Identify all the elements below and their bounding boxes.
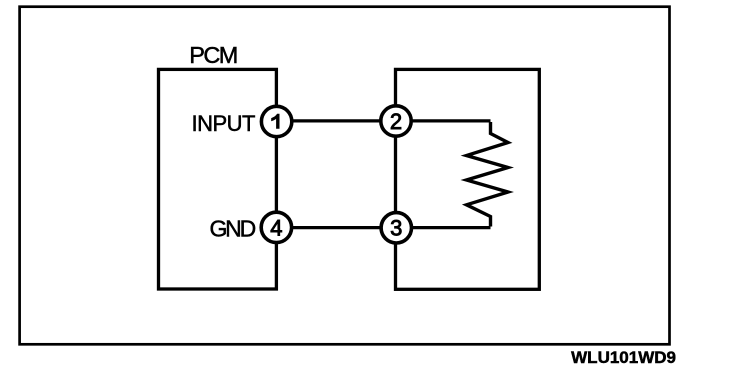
svg-text:PCM: PCM [189, 42, 236, 68]
svg-text:4: 4 [270, 215, 282, 240]
svg-text:3: 3 [390, 216, 402, 241]
svg-text:INPUT: INPUT [192, 111, 256, 136]
svg-text:WLU101WD9: WLU101WD9 [571, 348, 676, 367]
svg-text:2: 2 [390, 109, 402, 134]
svg-text:GND: GND [209, 216, 255, 242]
